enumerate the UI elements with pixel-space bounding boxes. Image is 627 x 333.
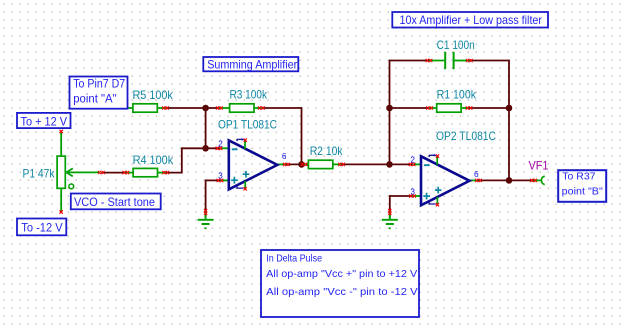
- wire OP2 pin3 down to ground: [389, 195, 391, 212]
- node OP2 output junction: [506, 177, 513, 184]
- wire R5 to R3 through node: [165, 107, 219, 109]
- pin mark R1 right: [466, 106, 473, 109]
- wire C1 right lead: [454, 60, 470, 62]
- node R1/C1 left junction: [386, 105, 393, 112]
- svg-text:All op-amp "Vcc -" pin to -12: All op-amp "Vcc -" pin to -12 V: [266, 286, 418, 298]
- svg-text:OP2 TL081C: OP2 TL081C: [436, 129, 496, 143]
- pin mark P1 bottom: [60, 210, 63, 213]
- wire OP2 pin2: [412, 163, 421, 165]
- wire node down to OP1 pin2 node: [205, 108, 207, 148]
- resistor R5: [133, 104, 157, 112]
- node OP1 output junction: [298, 161, 305, 168]
- wire feedback corner down to output node: [301, 107, 303, 164]
- wire R3 right pin: [254, 107, 262, 109]
- note box In Delta Pulse: [261, 250, 419, 317]
- terminal VF1: [541, 176, 544, 184]
- pin mark R4 left: [123, 171, 130, 174]
- wire R3 to feedback corner: [261, 107, 301, 109]
- svg-text:To R37: To R37: [562, 172, 596, 183]
- pin mark P1 top: [60, 130, 63, 133]
- wire R2 left pin: [304, 163, 309, 165]
- ground OP2: [382, 213, 398, 229]
- svg-text:To + 12 V: To + 12 V: [21, 114, 68, 128]
- pin mark C1 left: [426, 59, 433, 62]
- pin mark OP1 pin2: [216, 147, 223, 150]
- svg-text:All op-amp "Vcc +" pin to +12: All op-amp "Vcc +" pin to +12 V: [266, 268, 417, 280]
- wire OP2 output pin: [470, 179, 479, 181]
- svg-text:C1 100n: C1 100n: [437, 38, 475, 52]
- pin mark R5 right: [162, 106, 169, 109]
- svg-text:VF1: VF1: [529, 158, 549, 172]
- node R1/C1 right junction: [506, 105, 513, 112]
- svg-text:Summing Amplifier: Summing Amplifier: [207, 57, 297, 71]
- pin mark OP1 output: [283, 163, 290, 166]
- svg-text:VCO - Start tone: VCO - Start tone: [74, 195, 155, 209]
- wire R1 right: [469, 107, 509, 109]
- svg-text:10x Amplifier + Low pass filte: 10x Amplifier + Low pass filter: [400, 13, 543, 27]
- svg-text:6: 6: [282, 152, 287, 161]
- capacitor C1: [445, 52, 453, 69]
- pin mark OP1 ground: [204, 209, 207, 215]
- pin mark R2 left: [301, 163, 308, 166]
- pin mark R2 right: [338, 163, 345, 166]
- pin mark R3 left: [216, 106, 223, 109]
- wire right feedback vertical: [508, 60, 510, 181]
- pin mark OP2 output: [475, 179, 482, 182]
- svg-text:R2 10k: R2 10k: [310, 144, 344, 158]
- svg-text:6: 6: [474, 170, 479, 179]
- wire OP1 pin2: [219, 147, 229, 149]
- pin mark R1 left: [426, 106, 433, 109]
- resistor R2: [308, 160, 332, 168]
- label box VCO Start tone: [71, 194, 161, 210]
- wire OP1 output to R2: [286, 163, 304, 165]
- resistor R1: [437, 104, 461, 112]
- label box To +12 V: [17, 113, 71, 128]
- wire OP2 pin3 stub: [390, 195, 413, 197]
- wire R1 left: [390, 107, 430, 109]
- svg-text:2: 2: [410, 156, 415, 165]
- node OP2 pin2 junction: [386, 161, 393, 168]
- wire R1 left pin: [430, 107, 438, 109]
- wire C1 left: [390, 60, 430, 62]
- svg-text:3: 3: [218, 172, 223, 181]
- svg-text:R4 100k: R4 100k: [133, 153, 175, 167]
- svg-text:point "B": point "B": [562, 187, 604, 198]
- resistor R4: [133, 168, 157, 176]
- wire R3 left pin: [219, 107, 230, 109]
- wire R5 right pin: [157, 107, 166, 109]
- wire P1 bottom pin: [60, 188, 62, 212]
- wire R4 right pin: [157, 172, 165, 174]
- svg-text:3: 3: [410, 187, 415, 196]
- wire C1 left lead: [429, 60, 445, 62]
- wire OP1 output pin: [278, 163, 287, 165]
- resistor R3: [230, 104, 254, 112]
- pin mark OP1 pin3: [217, 179, 224, 182]
- node OP1 pin2 junction: [202, 145, 209, 152]
- pin mark VF1: [530, 179, 537, 182]
- pin mark C1 right: [466, 59, 473, 62]
- svg-text:To Pin7 D7: To Pin7 D7: [73, 79, 125, 91]
- pin mark P1 wiper: [98, 171, 105, 174]
- wire R2 right pin: [333, 163, 341, 165]
- wire R1 right pin: [460, 107, 469, 109]
- pin mark R4 right: [162, 171, 169, 174]
- svg-text:R5 100k: R5 100k: [133, 88, 174, 102]
- wire P1 top pin: [60, 132, 62, 157]
- wire left feedback vertical: [389, 60, 391, 165]
- wire OP2 pin3: [413, 195, 422, 197]
- svg-text:To -12 V: To -12 V: [21, 221, 62, 235]
- svg-text:P1 47k: P1 47k: [23, 166, 56, 180]
- svg-text:In Delta Pulse: In Delta Pulse: [266, 252, 322, 264]
- pin mark OP2 pin2: [409, 163, 416, 166]
- op-amp OP1: [229, 138, 277, 190]
- wire R2 to OP2 pin2 node: [342, 163, 413, 165]
- wire OP1 pin3 down to ground: [205, 180, 207, 212]
- wire P1 wiper to R4: [101, 172, 126, 174]
- wire OP1 pin3: [220, 179, 229, 181]
- wire OP2 ground stub: [389, 212, 391, 220]
- op-amp OP2: [421, 154, 470, 206]
- label box Summing Amplifier: [203, 57, 298, 71]
- wire OP1 ground stub: [205, 212, 207, 220]
- wire OP2 output to VF1: [479, 179, 534, 181]
- label box To Pin7 D7 point A: [70, 77, 128, 109]
- label box 10x Amplifier + Low pass filter: [392, 12, 548, 28]
- svg-text:point "A": point "A": [73, 94, 117, 106]
- wire C1 right: [469, 60, 509, 62]
- wire R4 riser vertical: [181, 147, 183, 172]
- wire label box to R5: [128, 107, 134, 109]
- pin mark OP2 pin3: [409, 194, 416, 197]
- svg-text:R1 100k: R1 100k: [437, 87, 477, 101]
- svg-text:OP1 TL081C: OP1 TL081C: [218, 117, 277, 131]
- label box To -12 V: [17, 219, 66, 236]
- label box To R37 point B: [558, 170, 606, 202]
- ground OP1: [198, 213, 214, 229]
- node R5/R3 feedback junction: [202, 105, 209, 112]
- pin mark R3 right: [258, 106, 265, 109]
- wire R4 to riser: [166, 172, 183, 174]
- svg-text:2: 2: [218, 140, 223, 149]
- wire VF1 terminal lead: [534, 179, 542, 181]
- svg-text:R3 100k: R3 100k: [230, 87, 268, 101]
- pin mark OP2 ground: [388, 209, 391, 215]
- wire R4 riser horizontal to pin2 node: [182, 147, 219, 149]
- wire OP1 pin3 stub: [206, 179, 220, 181]
- potentiometer P1: [57, 156, 100, 189]
- wire R4 left pin: [126, 172, 134, 174]
